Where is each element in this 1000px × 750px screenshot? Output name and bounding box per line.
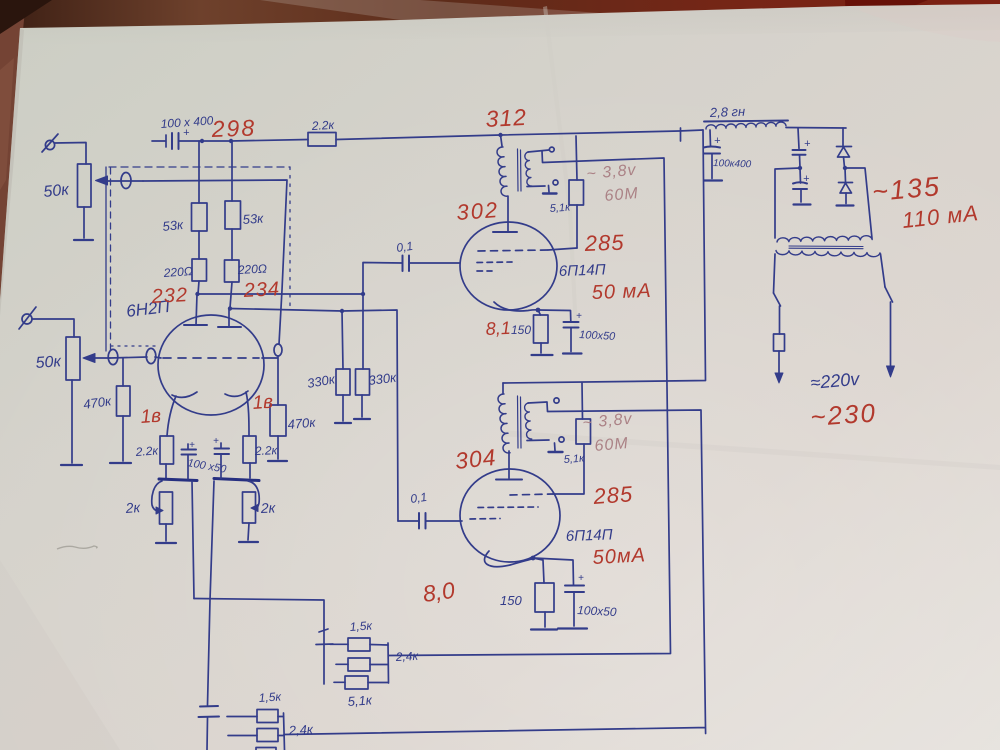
wire T2 secondary top [528,402,547,403]
wire B+ rail d [501,130,704,135]
wire P1 wiper to V1 grid B [143,180,287,344]
resistor R14 5,1к (screen feed lower) [576,383,591,444]
V3 screen grid (dashed) [510,494,553,495]
V1 cathode B [225,391,249,436]
ground C7 [794,203,811,205]
resistor R10 2.2к (cathode A) [160,436,174,478]
node C2 tap [361,292,365,296]
terminal T2 ground [549,437,565,452]
ground P1 [74,239,93,241]
wire B+ rail c [336,135,500,140]
svg-text:~230: ~230 [809,397,878,432]
transformer T1 core [518,149,522,191]
svg-text:53к: 53к [242,211,264,227]
arrow mains left [775,373,783,383]
potentiometer P2 50к [66,337,110,380]
svg-text:298: 298 [210,114,256,142]
svg-text:53к: 53к [162,217,185,234]
svg-text:304: 304 [454,444,498,474]
capacitor C4 0,1 [419,513,426,529]
resistor R5 2.2к [308,133,336,147]
wire V2 plate lead [507,197,509,232]
feedback bus 1 [387,643,390,683]
svg-text:8,1: 8,1 [485,318,511,339]
node V3 cathode [531,556,536,561]
svg-text:+: + [804,138,811,150]
resistor R8 330к [336,311,350,421]
ground C10 [563,352,582,354]
speaker terminal S1 [549,147,554,152]
svg-text:234: 234 [242,278,280,302]
diode D1 [837,128,852,168]
wire grid B entry [262,356,278,405]
wire C2 to plate A [363,263,403,295]
V1 plate A [184,294,207,325]
svg-text:285: 285 [583,230,625,256]
resistor R17 2,4к [336,658,388,671]
svg-text:5,1к: 5,1к [563,453,585,466]
resistor R13 5,1к (screen feed) [569,136,584,248]
V3 cathode [485,551,533,567]
tube V3 6П14П envelope [460,469,560,562]
diode D2 [839,168,853,204]
wire T2 secondary bottom [527,439,549,442]
wire mains left + switch [774,254,781,334]
terminal T1 ground [543,180,558,194]
wire J2 to pot P2 [32,319,74,337]
svg-text:0,1: 0,1 [409,490,427,506]
svg-text:150: 150 [500,593,522,608]
ground R3 [110,462,131,464]
wire V2 grid входной [409,262,460,264]
svg-text:8,0: 8,0 [421,577,456,607]
svg-text:50 мА: 50 мА [591,280,652,304]
transformer T3 core [789,246,863,249]
wire screen to 5.1к lower [553,444,584,494]
svg-text:1,5к: 1,5к [258,689,283,705]
svg-text:220Ω: 220Ω [236,261,267,277]
node 330к left [340,309,344,313]
ground D2 [837,204,854,206]
resistor R9 330к [356,294,370,417]
crossover hop E4 [274,344,282,356]
node plate A [195,292,199,296]
resistor R3 470к (grid leak A) [117,358,131,461]
wire T1 secondary top [528,150,549,152]
svg-text:6П14П: 6П14П [559,261,606,280]
wooden desk background [0,0,1000,60]
svg-text:+: + [576,311,582,322]
wire V3 plate lead [508,451,510,478]
svg-text:312: 312 [485,104,528,132]
svg-text:232: 232 [150,284,188,308]
svg-text:50к: 50к [35,353,63,372]
wire doubler left [775,168,800,238]
svg-text:2,4к: 2,4к [287,722,314,738]
node B+ b [229,139,233,143]
capacitor C8 100x50 [182,444,197,479]
capacitor C2 0,1 [403,256,410,272]
V2 cathode [494,302,538,311]
tube V2 6П14П envelope [460,222,557,310]
resistor R15 150 [533,558,554,627]
wire B+ drop to T1 [501,135,503,146]
capacitor C6 (doubler top) [793,128,806,168]
svg-text:60М: 60М [604,185,639,205]
wire P2 wiper to V1 grid A [110,357,161,358]
wire B+ rail a [202,140,231,142]
input jack J2 [19,307,36,329]
ground C5 [704,179,722,181]
cathode bus A [159,479,197,481]
pencil smudge [57,546,97,549]
crossover hop E2 [146,348,156,363]
cathode bus B [214,479,259,481]
capacitor C11 100x50 [533,558,584,626]
capacitor C9 100x50 [215,443,230,479]
svg-text:0,1: 0,1 [395,239,413,255]
V2 control grid (dashed) [477,262,512,271]
V2 plate [493,231,517,233]
svg-text:50к: 50к [43,181,71,201]
svg-text:+: + [213,436,219,447]
wire plate B bus [230,309,342,312]
capacitor C10 100x50 [538,310,579,352]
node B+ a [200,139,204,143]
transformer T3 primary winding [776,251,880,257]
svg-text:+: + [803,173,810,185]
faded red measurement notes [582,162,639,455]
svg-text:285: 285 [592,481,634,509]
svg-text:5,1к: 5,1к [549,202,571,215]
wire doubler right [845,168,872,239]
svg-text:220Ω: 220Ω [162,264,193,280]
resistor R20 2,4к [228,729,284,742]
V3 control grid (dashed) [470,507,538,519]
svg-text:+: + [578,573,584,584]
resistor R11 2.2к (cathode B) [243,436,256,478]
wire plate B to lower coupling C4 [342,310,398,521]
red handwritten annotations [140,104,980,607]
ground R15 [531,628,557,630]
wire T1 secondary bottom [527,185,545,188]
ground P3 [156,542,176,544]
junction tick [680,128,682,141]
transformer T1 primary [497,147,508,196]
wire C4 left [398,520,419,522]
svg-text:+: + [189,440,195,451]
ground P4 [239,541,258,543]
ground R8 [335,422,351,424]
node V2 cathode [536,308,541,313]
resistor R12 150 [534,310,549,353]
wire screen to 5.1к [548,248,577,250]
svg-text:2,4к: 2,4к [394,649,419,664]
arrow mains right [887,366,895,377]
wire B continue [206,718,209,750]
fuse F1 [774,334,785,351]
resistor R2 53к [225,141,241,260]
svg-text:2.2к: 2.2к [254,443,279,458]
svg-text:2к: 2к [124,499,142,516]
svg-text:470к: 470к [287,415,317,432]
svg-text:50мА: 50мА [592,544,646,569]
ground R4 [268,460,287,462]
capacitor C1 100x400 (B+ input) [152,133,202,149]
wire P1 to ground [83,207,85,238]
ground R12 [532,354,553,356]
svg-text:5,1к: 5,1к [347,692,373,709]
ground P2 [61,464,82,466]
wire plate A to coupling C2 [198,293,364,295]
capacitor C7 (doubler bottom) [793,168,807,202]
transformer T1 secondary [525,152,532,186]
schematic ink [19,121,895,750]
svg-text:302: 302 [456,197,500,225]
svg-text:2к: 2к [260,499,277,516]
speaker terminal S2 [554,398,559,403]
wire mains right + switch [881,254,893,367]
svg-text:100x50: 100x50 [577,603,617,619]
svg-text:1в: 1в [140,406,162,428]
svg-text:2.2к: 2.2к [134,443,160,459]
svg-text:+: + [183,127,190,139]
input jack J1 [42,134,58,152]
transformer T2 primary [498,383,510,453]
resistor R16 1,5к [330,638,388,651]
potentiometer P3 2к [152,481,173,541]
resistor R7 220Ω [225,260,240,308]
resistor R18 5,1к [334,676,388,689]
resistor R19 1,5к [227,710,284,723]
potentiometer P4 2к [243,481,260,540]
wire V3 grid input [426,520,462,522]
cathode bus drop A [192,481,194,599]
transformer T2 secondary [525,403,532,439]
svg-text:150: 150 [511,323,531,337]
transformer T2 core [518,396,522,448]
node doubler left [798,166,802,170]
svg-text:+: + [714,135,721,147]
resistor R4 470к (grid leak B) [270,405,286,459]
node doubler right [843,166,847,170]
shield box (dashed) [106,167,290,351]
junction tick fb1 [319,629,328,632]
resistor R21 (partial) [256,748,276,750]
blue handwritten labels [35,104,861,738]
svg-text:1в: 1в [252,392,274,414]
crossover hop E1 [108,349,118,364]
svg-text:2.2к: 2.2к [310,118,335,133]
V3 plate [496,479,522,481]
wire B+ rail b [231,140,308,142]
capacitor C5 100x400 (filter) [704,130,721,179]
transformer T3 HV winding [777,236,872,242]
node plate B [228,306,232,310]
bar fb1 [316,643,333,646]
V1 plate B [218,308,241,327]
node 312 [498,133,502,137]
potentiometer P1 50к [78,164,144,207]
series bars B [199,706,220,717]
wire feedback upper channel [389,151,671,656]
ground R9 [354,418,370,420]
V1 grids (dashed) [163,357,259,359]
svg-text:2,8 гн: 2,8 гн [709,104,746,120]
svg-text:100x50: 100x50 [579,329,617,343]
ground C11 [558,627,587,629]
wire feedback lower channel [284,403,706,735]
cathode bus drop B [208,481,215,705]
wire P2 to ground [71,380,73,463]
svg-text:6П14П: 6П14П [566,526,613,545]
wire B+ feed lower stage [503,130,706,383]
feedback bus 2 [284,713,285,750]
crossover hop E3 [121,173,131,189]
wire fuse to arrow [778,351,780,374]
choke L1 2,8гн [704,121,846,130]
svg-text:~135: ~135 [871,171,942,207]
resistor R6 220Ω [192,259,207,294]
svg-text:1,5к: 1,5к [349,618,374,634]
svg-text:60М: 60М [594,435,629,455]
V1 cathode A [167,392,197,436]
svg-text:100к400: 100к400 [713,158,752,170]
wire J1 to pot P1 [55,143,87,165]
V2 screen grid (dashed) [478,250,548,251]
resistor R1 53к [192,141,208,259]
feedback network 1: feed wire [194,599,324,685]
tube V1 6Н2П envelope [158,315,264,415]
